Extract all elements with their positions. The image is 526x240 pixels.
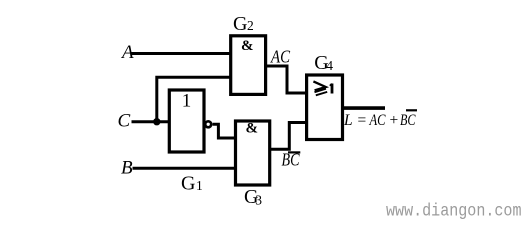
- svg-text:=: =: [357, 112, 367, 129]
- svg-text:G: G: [181, 172, 195, 194]
- svg-text:3: 3: [255, 193, 262, 208]
- svg-text:2: 2: [247, 18, 254, 33]
- svg-text:L: L: [343, 112, 353, 129]
- svg-text:&: &: [241, 38, 254, 54]
- svg-text:AC: AC: [270, 46, 291, 66]
- svg-text:G: G: [233, 13, 247, 35]
- svg-text:AC: AC: [369, 112, 386, 129]
- svg-text:4: 4: [326, 58, 333, 73]
- svg-text:A: A: [120, 42, 134, 63]
- svg-text:B: B: [121, 158, 133, 179]
- svg-text:1: 1: [182, 91, 192, 112]
- svg-text:C: C: [118, 111, 131, 132]
- svg-text:+: +: [389, 112, 399, 129]
- svg-text:BC: BC: [400, 112, 416, 129]
- svg-text:1: 1: [196, 178, 203, 193]
- svg-text:www.diangon.com: www.diangon.com: [386, 201, 522, 221]
- svg-text:&: &: [246, 121, 259, 137]
